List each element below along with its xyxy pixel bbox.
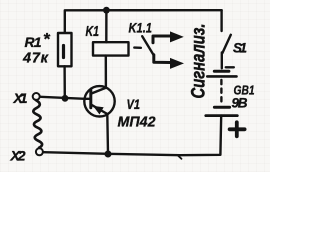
svg-text:МП42: МП42 — [118, 114, 157, 131]
contact K1.1 blade — [142, 36, 154, 55]
arrow top to signal — [170, 31, 184, 42]
stray tick on bottom wire — [178, 156, 182, 159]
wire X1 to base — [41, 97, 85, 99]
node junction R1/base — [62, 95, 69, 102]
battery minus mark — [226, 66, 234, 68]
wire K1 top lead — [105, 10, 107, 42]
svg-text:X2: X2 — [10, 148, 26, 164]
terminal X1 — [33, 93, 40, 100]
svg-text:X1: X1 — [13, 90, 28, 106]
node junction top (K1 lead) — [103, 7, 110, 14]
wire emitter lead — [106, 114, 109, 154]
inductor loop coil — [33, 100, 42, 148]
node junction emitter/bottom — [105, 151, 112, 158]
svg-text:Сигнализ.: Сигнализ. — [189, 24, 210, 99]
svg-text:47к: 47к — [22, 51, 49, 67]
wire bottom rail — [44, 116, 222, 156]
wire contact bottom terminal — [154, 55, 171, 63]
resistor R1 — [58, 33, 72, 66]
wire K1 bottom to collector — [105, 56, 107, 88]
transistor V1 — [84, 86, 114, 116]
svg-text:K1.1: K1.1 — [129, 20, 153, 36]
svg-text:V1: V1 — [127, 96, 141, 112]
svg-text:S1: S1 — [233, 41, 247, 56]
wire top rail — [65, 10, 222, 33]
switch S1 — [222, 10, 231, 68]
svg-text:K1: K1 — [86, 24, 100, 40]
wire R1 bottom lead — [63, 66, 66, 98]
svg-text:R1: R1 — [25, 34, 42, 50]
svg-text:9В: 9В — [232, 96, 248, 111]
battery GB1 — [206, 71, 238, 115]
plus sign — [230, 122, 245, 136]
mechanical link dash K1 — [134, 46, 141, 49]
svg-text:*: * — [43, 30, 51, 49]
terminal X2 — [36, 148, 43, 155]
relay coil K1 — [93, 42, 129, 55]
wire contact top terminal — [153, 36, 171, 43]
arrow bottom to signal — [170, 58, 184, 69]
